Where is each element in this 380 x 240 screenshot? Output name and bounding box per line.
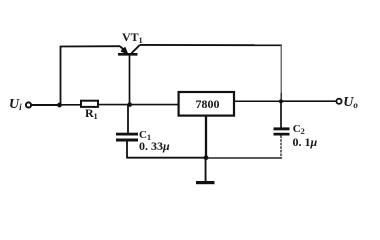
wire node C down to C2 xyxy=(280,101,282,127)
wire C2 down to ground rail xyxy=(280,136,282,159)
terminal Uo xyxy=(336,99,341,104)
svg-text:Ui: Ui xyxy=(9,97,22,112)
resistor R1 xyxy=(81,101,98,107)
svg-text:0. 33μ: 0. 33μ xyxy=(139,139,170,153)
wire R1 to node B xyxy=(98,104,130,106)
svg-text:7800: 7800 xyxy=(196,97,220,111)
wire 7800 output to node C xyxy=(235,100,281,102)
wire VT1 collector to top-right corner xyxy=(140,44,282,46)
wire node C to output terminal xyxy=(281,100,336,102)
svg-text:R1: R1 xyxy=(85,106,98,121)
terminal Ui xyxy=(26,102,31,107)
capacitor C2 xyxy=(274,127,290,135)
wire 7800 GND pin to ground rail xyxy=(205,117,207,158)
node C junction xyxy=(279,99,283,103)
regulator U1 7800 xyxy=(179,92,234,116)
ground xyxy=(196,158,215,185)
node D junction xyxy=(204,155,209,160)
wire C1 down to ground rail xyxy=(126,142,128,159)
node B junction xyxy=(127,102,132,107)
transistor VT1 xyxy=(118,45,140,55)
wire node A up to top-left corner xyxy=(61,46,121,105)
wire top-right corner down to node C xyxy=(280,44,282,93)
wire node B down to C1 xyxy=(127,105,129,133)
node A junction xyxy=(57,103,62,108)
wire input terminal to node A xyxy=(32,104,60,106)
svg-text:VT1: VT1 xyxy=(122,30,143,45)
svg-text:Uo: Uo xyxy=(343,95,358,110)
ground rail xyxy=(127,157,206,159)
wire node A to R1 xyxy=(60,104,82,106)
capacitor C1 xyxy=(116,133,138,142)
svg-text:0. 1μ: 0. 1μ xyxy=(293,135,318,149)
wire node B to 7800 input xyxy=(130,104,178,106)
wire VT1 base down to node B xyxy=(129,55,131,105)
